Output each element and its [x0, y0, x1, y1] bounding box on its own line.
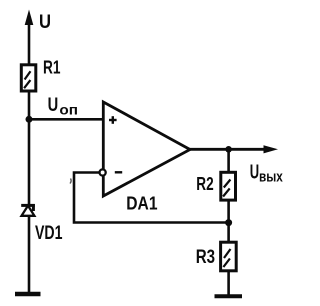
node Uvyh: output arrow pointing right — [264, 145, 279, 153]
op-amp - input marker — [115, 171, 122, 173]
svg-text:U: U — [48, 94, 59, 116]
wire: feedback from bubble, left then down then right — [74, 173, 229, 223]
svg-text:вых: вых — [259, 170, 283, 186]
svg-text:U: U — [39, 11, 51, 33]
svg-text:R3: R3 — [196, 246, 215, 268]
wire: left supply rail (vertical) — [28, 22, 31, 293]
junction: feedback node dot — [225, 219, 232, 226]
op-amp inverting input bubble — [100, 169, 106, 175]
svg-text:R1: R1 — [43, 58, 61, 78]
resistor R3 — [221, 242, 237, 271]
node Uop label — [48, 94, 78, 118]
ground (right) — [215, 294, 243, 298]
wire: output node down to R2 — [227, 149, 230, 173]
svg-text:R2: R2 — [196, 173, 213, 194]
wire: Uop node to op-amp + input — [29, 118, 104, 121]
svg-text:U: U — [250, 161, 259, 183]
resistor R2 — [221, 172, 236, 200]
op-amp + input marker — [109, 116, 117, 124]
svg-text:VD1: VD1 — [35, 223, 63, 244]
op-amp DA1 triangle — [103, 102, 190, 196]
wire: op-amp output to the right — [188, 148, 272, 151]
resistor R1 — [21, 65, 36, 91]
svg-text:DA1: DA1 — [126, 193, 157, 214]
junction: output node dot — [225, 146, 232, 153]
wire: feedback node down to R3 — [227, 223, 230, 243]
node Uvyh label — [250, 161, 283, 185]
svg-text:оп: оп — [59, 103, 78, 118]
ground (left) — [15, 292, 41, 296]
wire: R2 to feedback node — [227, 200, 230, 223]
artifact speck near feedback corner — [70, 179, 71, 184]
zener diode VD1 — [21, 204, 35, 216]
wire: R3 down to ground — [227, 271, 230, 295]
node U: supply arrow pointing up — [25, 10, 34, 26]
junction: Uop node dot — [26, 116, 33, 123]
